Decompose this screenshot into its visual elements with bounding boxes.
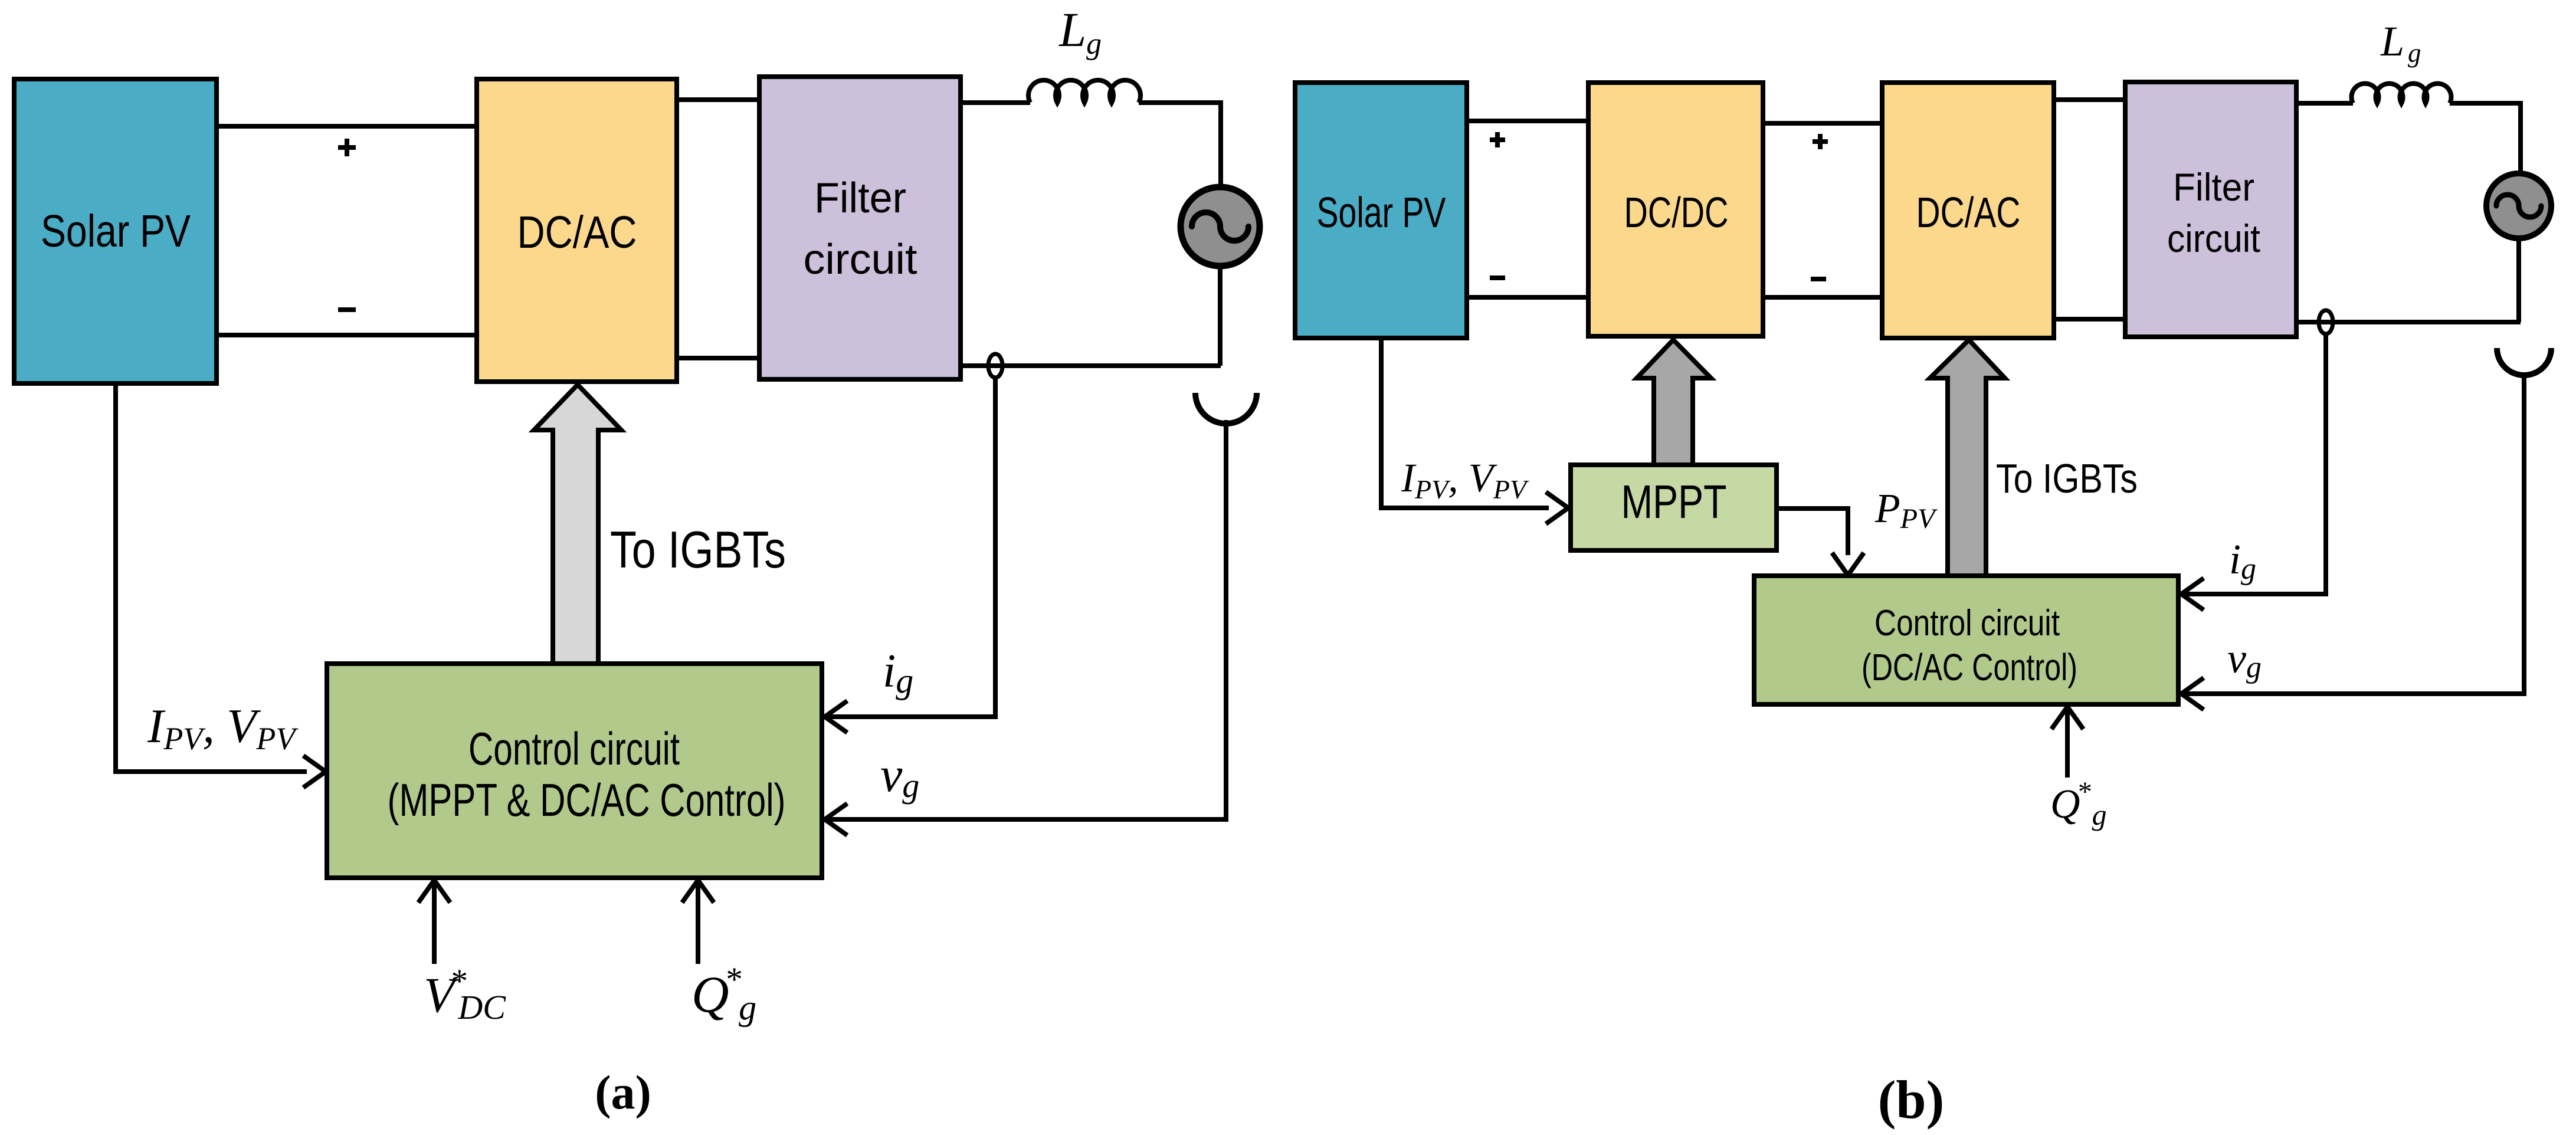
svg-text:Control circuit: Control circuit — [1874, 603, 2060, 644]
svg-text:Lg: Lg — [1058, 2, 1102, 61]
svg-text:vg: vg — [880, 747, 919, 805]
svg-text:Solar PV: Solar PV — [1317, 189, 1446, 237]
svg-text:DC/DC: DC/DC — [1624, 189, 1729, 237]
svg-text:ig: ig — [883, 645, 913, 700]
svg-text:PPV: PPV — [1874, 486, 1938, 534]
svg-text:V*DC: V*DC — [424, 963, 506, 1026]
svg-text:To IGBTs: To IGBTs — [1996, 455, 2138, 501]
svg-text:vg: vg — [2227, 635, 2262, 684]
svg-text:circuit: circuit — [804, 236, 917, 283]
svg-text:Q*g: Q*g — [691, 961, 756, 1027]
svg-text:MPPT: MPPT — [1621, 475, 1727, 528]
svg-text:ig: ig — [2229, 536, 2256, 586]
svg-text:DC/AC: DC/AC — [1916, 189, 2021, 237]
svg-text:IPV, VPV: IPV, VPV — [1401, 455, 1529, 504]
svg-text:Q*g: Q*g — [2050, 776, 2107, 831]
svg-text:Lg: Lg — [2380, 18, 2421, 68]
svg-text:circuit: circuit — [2167, 216, 2260, 260]
svg-text:(DC/AC Control): (DC/AC Control) — [1861, 646, 2077, 688]
svg-text:(MPPT & DC/AC Control): (MPPT & DC/AC Control) — [388, 774, 786, 826]
svg-text:(b): (b) — [1878, 1070, 1944, 1130]
svg-text:IPV, VPV: IPV, VPV — [147, 699, 299, 756]
svg-text:Solar PV: Solar PV — [41, 206, 191, 257]
svg-text:DC/AC: DC/AC — [517, 207, 637, 258]
svg-text:To IGBTs: To IGBTs — [610, 520, 786, 579]
svg-text:(a): (a) — [595, 1065, 651, 1119]
svg-text:Filter: Filter — [814, 175, 906, 222]
svg-text:Filter: Filter — [2173, 165, 2254, 209]
svg-text:Control circuit: Control circuit — [468, 723, 680, 775]
